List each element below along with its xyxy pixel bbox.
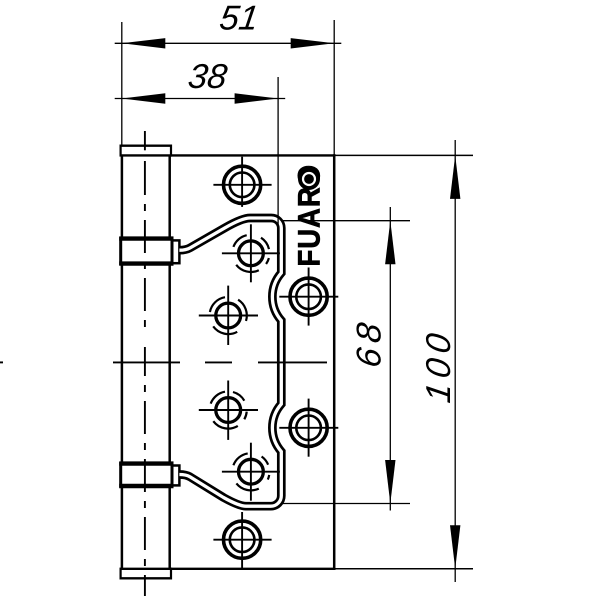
svg-text:38: 38 bbox=[186, 58, 230, 96]
dimension 68 extension line bottom bbox=[282, 503, 410, 505]
svg-text:100: 100 bbox=[420, 326, 458, 405]
leaf cutout inner white core bbox=[179, 218, 281, 506]
svg-text:68: 68 bbox=[351, 315, 389, 370]
dimension 51 extension line right bbox=[333, 20, 335, 156]
plate left edge / barrel right edge bbox=[168, 155, 171, 568]
dimension 68 extension line top bbox=[282, 220, 410, 222]
screw hole A8 bottom bbox=[213, 512, 271, 568]
dimension line 38 bbox=[115, 58, 286, 104]
plate top edge line (extends right as 100-dim extension) bbox=[121, 154, 336, 156]
dimension line 51 bbox=[115, 0, 342, 49]
screw hole B7 bbox=[222, 443, 280, 501]
leaf cutout outline (double line via over-stroke) bbox=[179, 218, 281, 506]
upper collar bbox=[121, 239, 172, 264]
horizontal centre line segments bbox=[0, 361, 3, 363]
lower collar bbox=[121, 464, 172, 486]
screw hole A1 top bbox=[213, 157, 271, 207]
screw hole A3 right upper bbox=[279, 268, 338, 326]
barrel centre line (dash-dot) bbox=[144, 131, 146, 596]
hinge barrel left edge bbox=[121, 155, 124, 568]
svg-text:51: 51 bbox=[217, 0, 261, 38]
lower collar tab bbox=[172, 466, 179, 486]
dimension line 68 bbox=[351, 207, 396, 511]
upper collar tab bbox=[172, 240, 179, 263]
screw hole B4 bbox=[199, 286, 258, 345]
barrel top cap bbox=[121, 144, 172, 146]
screw hole A6 right lower bbox=[279, 399, 338, 457]
FUARO logo bbox=[292, 164, 327, 267]
barrel bottom cap bbox=[121, 577, 172, 579]
screw hole B2 bbox=[222, 224, 280, 282]
dimension 38 extension line right bbox=[277, 77, 279, 228]
plate right edge bbox=[333, 154, 336, 570]
dimension 51 extension line left bbox=[121, 22, 123, 146]
dimension line 100 bbox=[420, 140, 460, 582]
plate bottom edge line (extends right as 100-dim extension) bbox=[121, 568, 336, 570]
screw hole B5 bbox=[199, 381, 258, 440]
